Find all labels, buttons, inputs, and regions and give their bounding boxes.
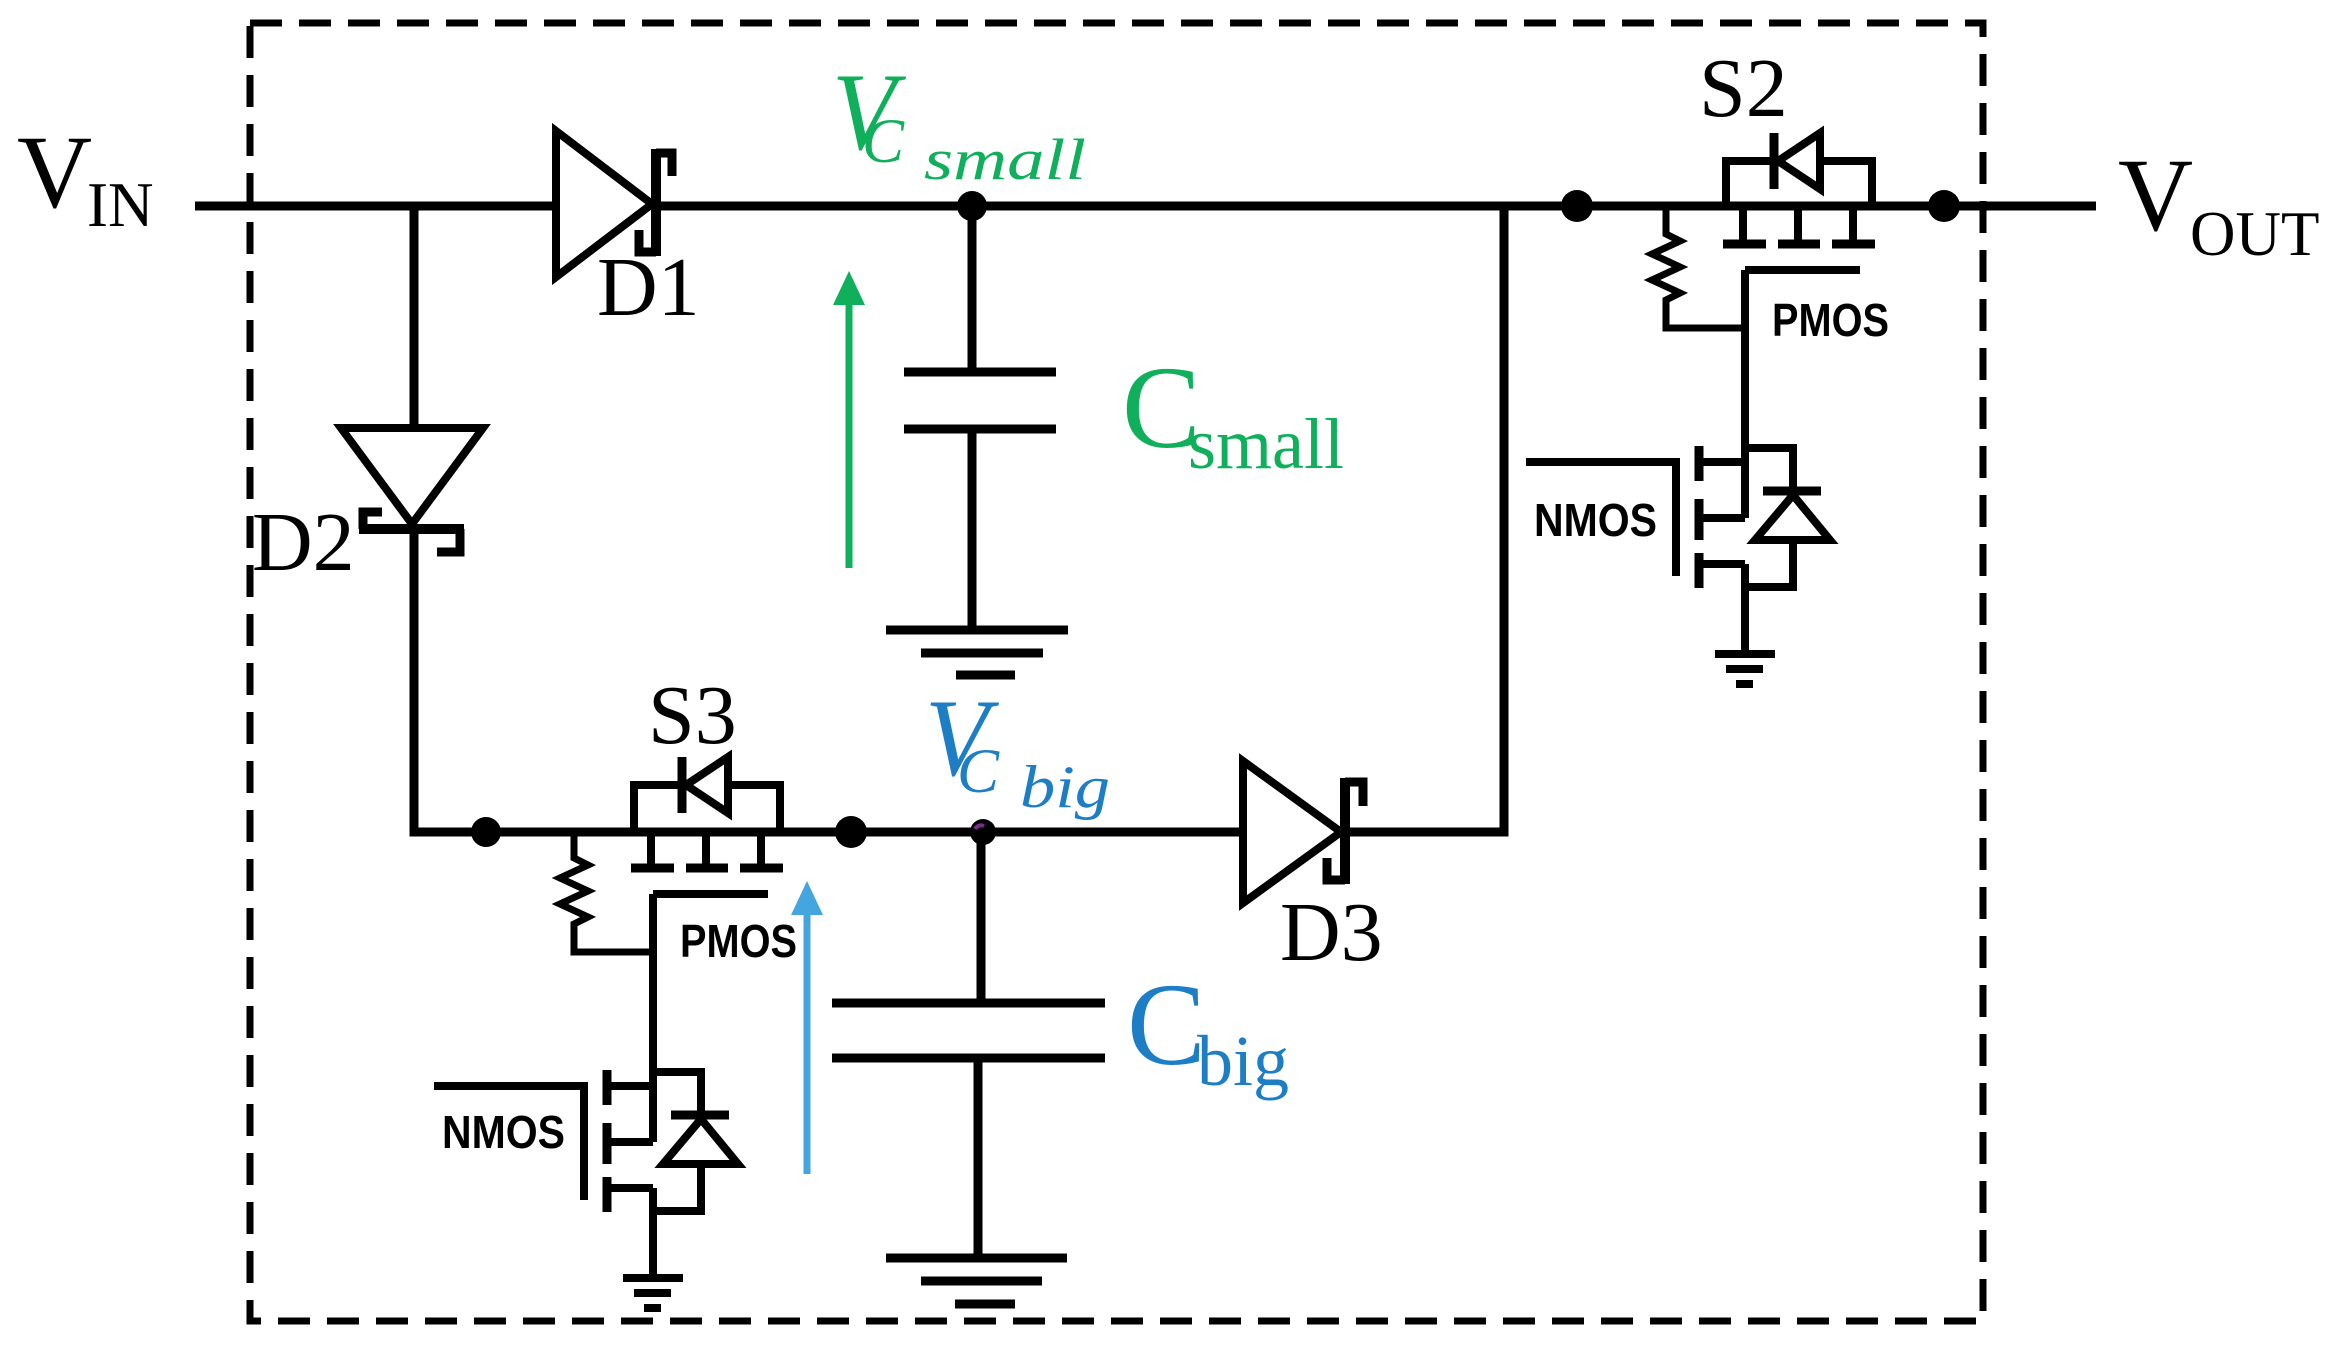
resistor (gate pull-up) bbox=[560, 832, 653, 952]
svg-text:NMOS: NMOS bbox=[1534, 494, 1657, 546]
wire: source down to ground bbox=[1741, 564, 1749, 654]
junction: mid-rail corner dot bbox=[471, 817, 501, 847]
wire: PMOS S/D bridge stubs at (634,832) bbox=[634, 785, 682, 832]
NMOS source stub bbox=[611, 1184, 653, 1192]
capacitor Csmall label (green) bbox=[1122, 342, 1344, 484]
wire: Cbig to ground bbox=[974, 1058, 983, 1258]
svg-text:V: V bbox=[2118, 138, 2193, 253]
ground (Csmall) bbox=[886, 626, 1068, 635]
NMOS channel segments bbox=[603, 1070, 612, 1105]
svg-text:NMOS: NMOS bbox=[442, 1106, 565, 1158]
node VCbig label (blue) bbox=[925, 677, 1110, 820]
wire: gate node vertical down to NMOS drain bbox=[1741, 270, 1749, 518]
svg-text:big: big bbox=[1020, 754, 1110, 820]
NMOS body diode (points up) bbox=[671, 1111, 729, 1120]
svg-text:V: V bbox=[17, 115, 92, 230]
wire: top rail down to D2 anode bbox=[410, 206, 419, 430]
svg-text:big: big bbox=[1197, 1021, 1289, 1101]
svg-text:D2: D2 bbox=[252, 496, 355, 589]
node VCbig dot bbox=[970, 819, 996, 845]
capacitor Cbig label (blue) bbox=[1127, 959, 1289, 1101]
ground (NMOS source) bbox=[623, 1274, 683, 1282]
svg-text:C: C bbox=[1127, 959, 1206, 1090]
svg-text:small: small bbox=[1188, 404, 1344, 484]
wire: VIN to D1 anode (top rail) bbox=[195, 202, 553, 211]
svg-text:PMOS: PMOS bbox=[1772, 294, 1889, 346]
svg-text:small: small bbox=[924, 127, 1086, 192]
capacitor Cbig bbox=[832, 999, 1105, 1008]
NMOS gate lead bbox=[434, 1086, 584, 1200]
NMOS drain stub bbox=[611, 1082, 653, 1090]
NMOS gate lead bbox=[1526, 462, 1676, 576]
wire: hook from drain to body diode bbox=[1745, 448, 1793, 491]
diode D3 (Schottky) bbox=[1243, 761, 1363, 903]
capacitor Csmall bbox=[904, 368, 1056, 377]
NMOS channel segments bbox=[1695, 446, 1704, 481]
wire: D3 cathode right then up to top rail bbox=[1344, 206, 1504, 832]
svg-text:S3: S3 bbox=[648, 669, 737, 762]
PMOS body diode (points left) at (682,785) bbox=[678, 757, 687, 813]
svg-text:D1: D1 bbox=[597, 241, 700, 334]
junction: top rail before S2 bbox=[1561, 190, 1593, 222]
ground (NMOS source) bbox=[1715, 650, 1775, 658]
svg-text:C: C bbox=[957, 736, 1000, 806]
svg-text:C: C bbox=[862, 106, 905, 176]
current arrow (green, Csmall charge) bbox=[833, 271, 865, 568]
ground (Cbig) bbox=[886, 1254, 1067, 1263]
wire: PMOS S/D bridge stubs at (1726,208) bbox=[1726, 161, 1774, 208]
junction: S3 output dot bbox=[835, 816, 867, 848]
PMOS gate electrode bbox=[653, 890, 768, 898]
svg-text:IN: IN bbox=[87, 170, 153, 240]
PMOS gate electrode bbox=[1745, 266, 1860, 274]
wire: VCsmall node down to Csmall bbox=[968, 206, 977, 370]
node VCsmall label (green) bbox=[832, 51, 1086, 192]
dashed border box bbox=[250, 23, 1983, 1321]
PMOS channel contact stubs bbox=[1739, 210, 1747, 240]
wire: gate node vertical down to NMOS drain bbox=[649, 894, 657, 1142]
wire: D2 cathode down and right to S3 (mid rail) bbox=[414, 531, 1243, 832]
wire: D1 cathode to VOUT (top rail) bbox=[655, 202, 2096, 211]
svg-text:D3: D3 bbox=[1280, 886, 1383, 979]
PMOS channel contact stubs bbox=[647, 834, 655, 864]
wire: source down to ground bbox=[649, 1188, 657, 1278]
junction: top rail after S2 bbox=[1928, 190, 1960, 222]
wire: VCbig node down to Cbig bbox=[977, 832, 986, 1001]
wire: hook from drain to body diode bbox=[653, 1072, 701, 1115]
wire: Csmall to ground bbox=[968, 429, 977, 630]
NMOS source stub bbox=[1703, 560, 1745, 568]
PMOS channel segments bbox=[1723, 240, 1766, 249]
wire: diode bottom to source bbox=[653, 1164, 701, 1211]
NMOS body stub bbox=[1703, 514, 1745, 522]
svg-text:OUT: OUT bbox=[2190, 199, 2319, 269]
diode D2 (Schottky, points down) bbox=[341, 428, 483, 552]
wire: diode bottom to source bbox=[1745, 540, 1793, 587]
resistor (gate pull-up) bbox=[1652, 208, 1745, 328]
NMOS body stub bbox=[611, 1138, 653, 1146]
svg-text:S2: S2 bbox=[1699, 42, 1788, 135]
NMOS drain stub bbox=[1703, 458, 1745, 466]
NMOS body diode (points up) bbox=[1763, 487, 1821, 496]
junction: VCsmall node dot bbox=[957, 191, 987, 221]
PMOS channel segments bbox=[631, 864, 674, 873]
current arrow (blue, Cbig charge) bbox=[791, 881, 823, 1174]
PMOS body diode (points left) at (1774,161) bbox=[1770, 133, 1779, 189]
svg-text:PMOS: PMOS bbox=[680, 915, 797, 967]
diode D1 (Schottky) bbox=[556, 131, 672, 277]
